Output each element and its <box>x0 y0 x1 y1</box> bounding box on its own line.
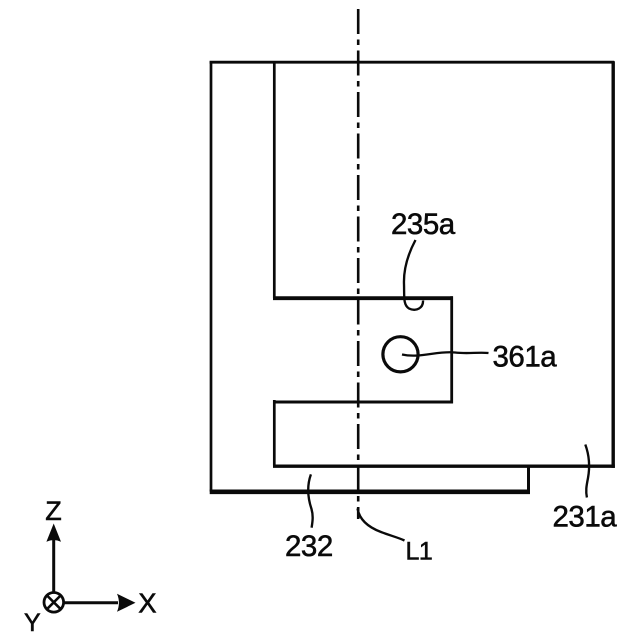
svg-text:235a: 235a <box>391 208 456 241</box>
axis X arrow <box>64 601 118 604</box>
base plate 232: bottom thick edge <box>210 489 530 494</box>
outer plate: left edge <box>210 61 213 491</box>
svg-text:Y: Y <box>24 609 41 637</box>
hole 361a <box>383 337 418 372</box>
outer plate 231a: top edge <box>210 61 615 64</box>
leader line for 231a <box>585 445 589 498</box>
centerline L1 (dash-dot axis) <box>357 9 360 519</box>
axis origin Y symbol (into page) <box>44 593 64 613</box>
svg-text:232: 232 <box>285 530 333 563</box>
svg-text:231a: 231a <box>553 501 618 534</box>
outer plate 231a: bottom edge <box>273 465 615 468</box>
svg-text:X: X <box>138 588 156 619</box>
holder 235a: right edge <box>450 296 453 403</box>
svg-text:L1: L1 <box>406 538 433 566</box>
leader line for 232 <box>308 474 313 527</box>
holder 235a: top edge <box>273 296 453 300</box>
svg-text:361a: 361a <box>493 340 558 373</box>
bracket 232: lower inner vertical wall <box>273 400 276 466</box>
leader line for 361a <box>402 352 489 355</box>
leader line for L1 <box>358 509 405 541</box>
leader line for 235a <box>404 240 423 310</box>
outer plate 231a: right edge <box>612 61 615 468</box>
base plate 232: right edge <box>527 465 530 494</box>
holder 235a: bottom edge <box>273 401 453 404</box>
svg-text:Z: Z <box>45 496 61 526</box>
axis Z arrow <box>52 540 55 592</box>
bracket 232: inner vertical wall <box>273 61 276 298</box>
